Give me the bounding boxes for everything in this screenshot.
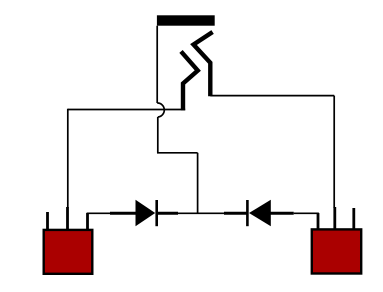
wire between diodes [178, 212, 224, 214]
wire hop over horizontal wire [157, 103, 164, 117]
broken-contact zigzag right half [194, 32, 213, 96]
diode D1 cathode lead [158, 212, 178, 215]
wire from hop down to corner [157, 117, 159, 153]
wire from bar left end down [156, 26, 158, 103]
left red box [44, 230, 93, 274]
wire center junction down to diode net [197, 153, 199, 214]
wire right drop down to right box [333, 96, 335, 208]
broken-contact zigzag left half [181, 51, 198, 110]
wire left node down to left box [67, 109, 69, 208]
diode D1 anode lead [110, 212, 136, 215]
wire diode D2 to right box [294, 213, 318, 229]
right box terminal pin 2 [333, 207, 336, 230]
right box terminal pin 1 [317, 213, 320, 230]
wire zigzag right leg to right drop [210, 95, 334, 97]
diode D1 cathode bar [155, 200, 158, 226]
diode D2 cathode bar [246, 200, 249, 226]
left box terminal pin 1 (free stub) [46, 212, 49, 230]
left box terminal pin 2 [66, 207, 69, 230]
top electrode bar [157, 15, 215, 25]
diode D2 anode lead [271, 212, 294, 215]
wire left node to zigzag left leg [68, 109, 185, 111]
diode D2 triangle [249, 200, 271, 226]
wire horizontal to center junction [157, 152, 198, 154]
diode D2 cathode lead [224, 212, 247, 215]
wire left box to diode D1 [88, 213, 112, 229]
left box terminal pin 3 [86, 213, 89, 230]
diode D1 triangle [136, 200, 156, 226]
right box terminal pin 3 (free stub) [352, 208, 355, 230]
right red box [312, 229, 361, 273]
